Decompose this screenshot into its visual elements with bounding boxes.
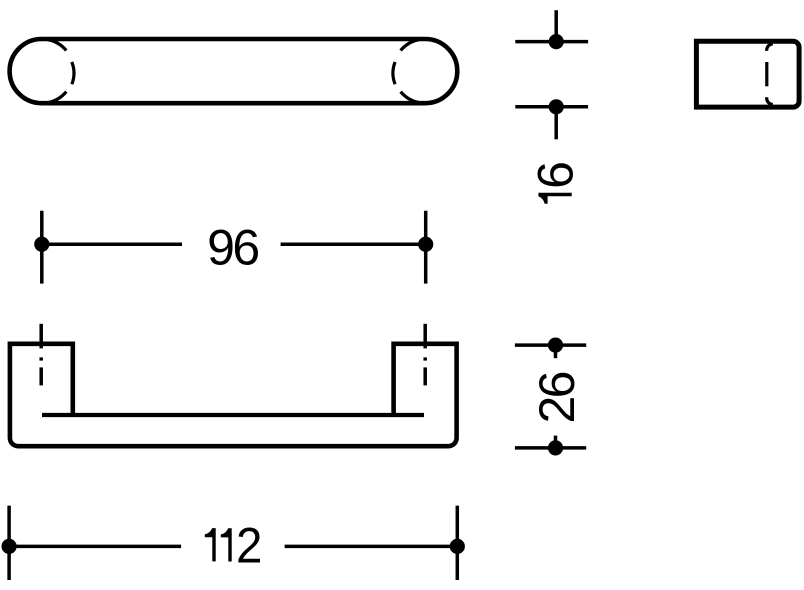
dimension 112: left extension line bbox=[7, 506, 11, 580]
side view: hidden edge dashed line bottom hook bbox=[767, 97, 773, 104]
dimension 112: label digit 1 (first) bbox=[205, 528, 216, 561]
dimension 96: right extension line bbox=[424, 211, 428, 284]
dimension 26: upper dimension line segment bbox=[554, 345, 558, 358]
svg-text:2: 2 bbox=[236, 518, 262, 573]
top view: left post circle lower arc bbox=[47, 92, 66, 103]
front view: left post centerline bbox=[39, 324, 43, 386]
dimension 96: left dimension line bbox=[42, 242, 182, 246]
dimension 26: lower extension line bbox=[515, 446, 586, 450]
dimension 112: label digit 1 (second) bbox=[221, 528, 232, 561]
dimension 16: upper dot bbox=[549, 34, 564, 49]
dimension 16: lower dimension line segment bbox=[554, 107, 558, 140]
top view: left fillet arc bbox=[72, 62, 74, 84]
front view: bar top edge line bbox=[42, 413, 424, 417]
top view: right post circle upper arc bbox=[401, 40, 420, 51]
side view: hidden edge dashed line top hook bbox=[767, 44, 773, 51]
side view: hidden edge dashed line middle dash bbox=[765, 62, 768, 86]
dimension 16: label digit 1 bbox=[538, 193, 571, 204]
dimension 26: upper extension line bbox=[515, 343, 586, 347]
dimension 112: right extension line bbox=[456, 506, 460, 580]
dimension 96: left dot bbox=[34, 237, 49, 252]
top view: right post circle lower arc bbox=[401, 92, 420, 103]
dimension 96: right dimension line bbox=[281, 242, 426, 246]
dimension 96: left extension line bbox=[40, 211, 44, 284]
front view: right post centerline bbox=[423, 324, 427, 386]
dimension 26: lower dot bbox=[548, 440, 563, 455]
dimension 16: upper dimension line segment bbox=[554, 10, 558, 41]
dimension 112: left dot bbox=[2, 539, 17, 554]
front view: handle silhouette bbox=[10, 344, 457, 446]
dimension 96: right dot bbox=[418, 237, 433, 252]
dimension 16: lower dot bbox=[549, 99, 564, 114]
dimension 26: upper dot bbox=[548, 338, 563, 353]
top view: right fillet arc bbox=[393, 62, 395, 84]
dimension 112: right dot bbox=[450, 539, 465, 554]
side view: end cap rectangle bbox=[696, 41, 799, 107]
top view: handle bar stadium outline bbox=[10, 39, 458, 103]
dimension 112: left dimension line bbox=[9, 545, 181, 549]
svg-text:96: 96 bbox=[207, 220, 258, 276]
dimension 26: lower dimension line segment bbox=[554, 436, 558, 448]
svg-text:26: 26 bbox=[529, 372, 585, 423]
top view: left post circle upper arc bbox=[47, 40, 66, 51]
svg-text:6: 6 bbox=[528, 161, 584, 189]
dimension 112: right dimension line bbox=[285, 545, 458, 549]
dimension 16: upper extension line bbox=[515, 40, 588, 44]
dimension 16: lower extension line bbox=[515, 105, 588, 109]
